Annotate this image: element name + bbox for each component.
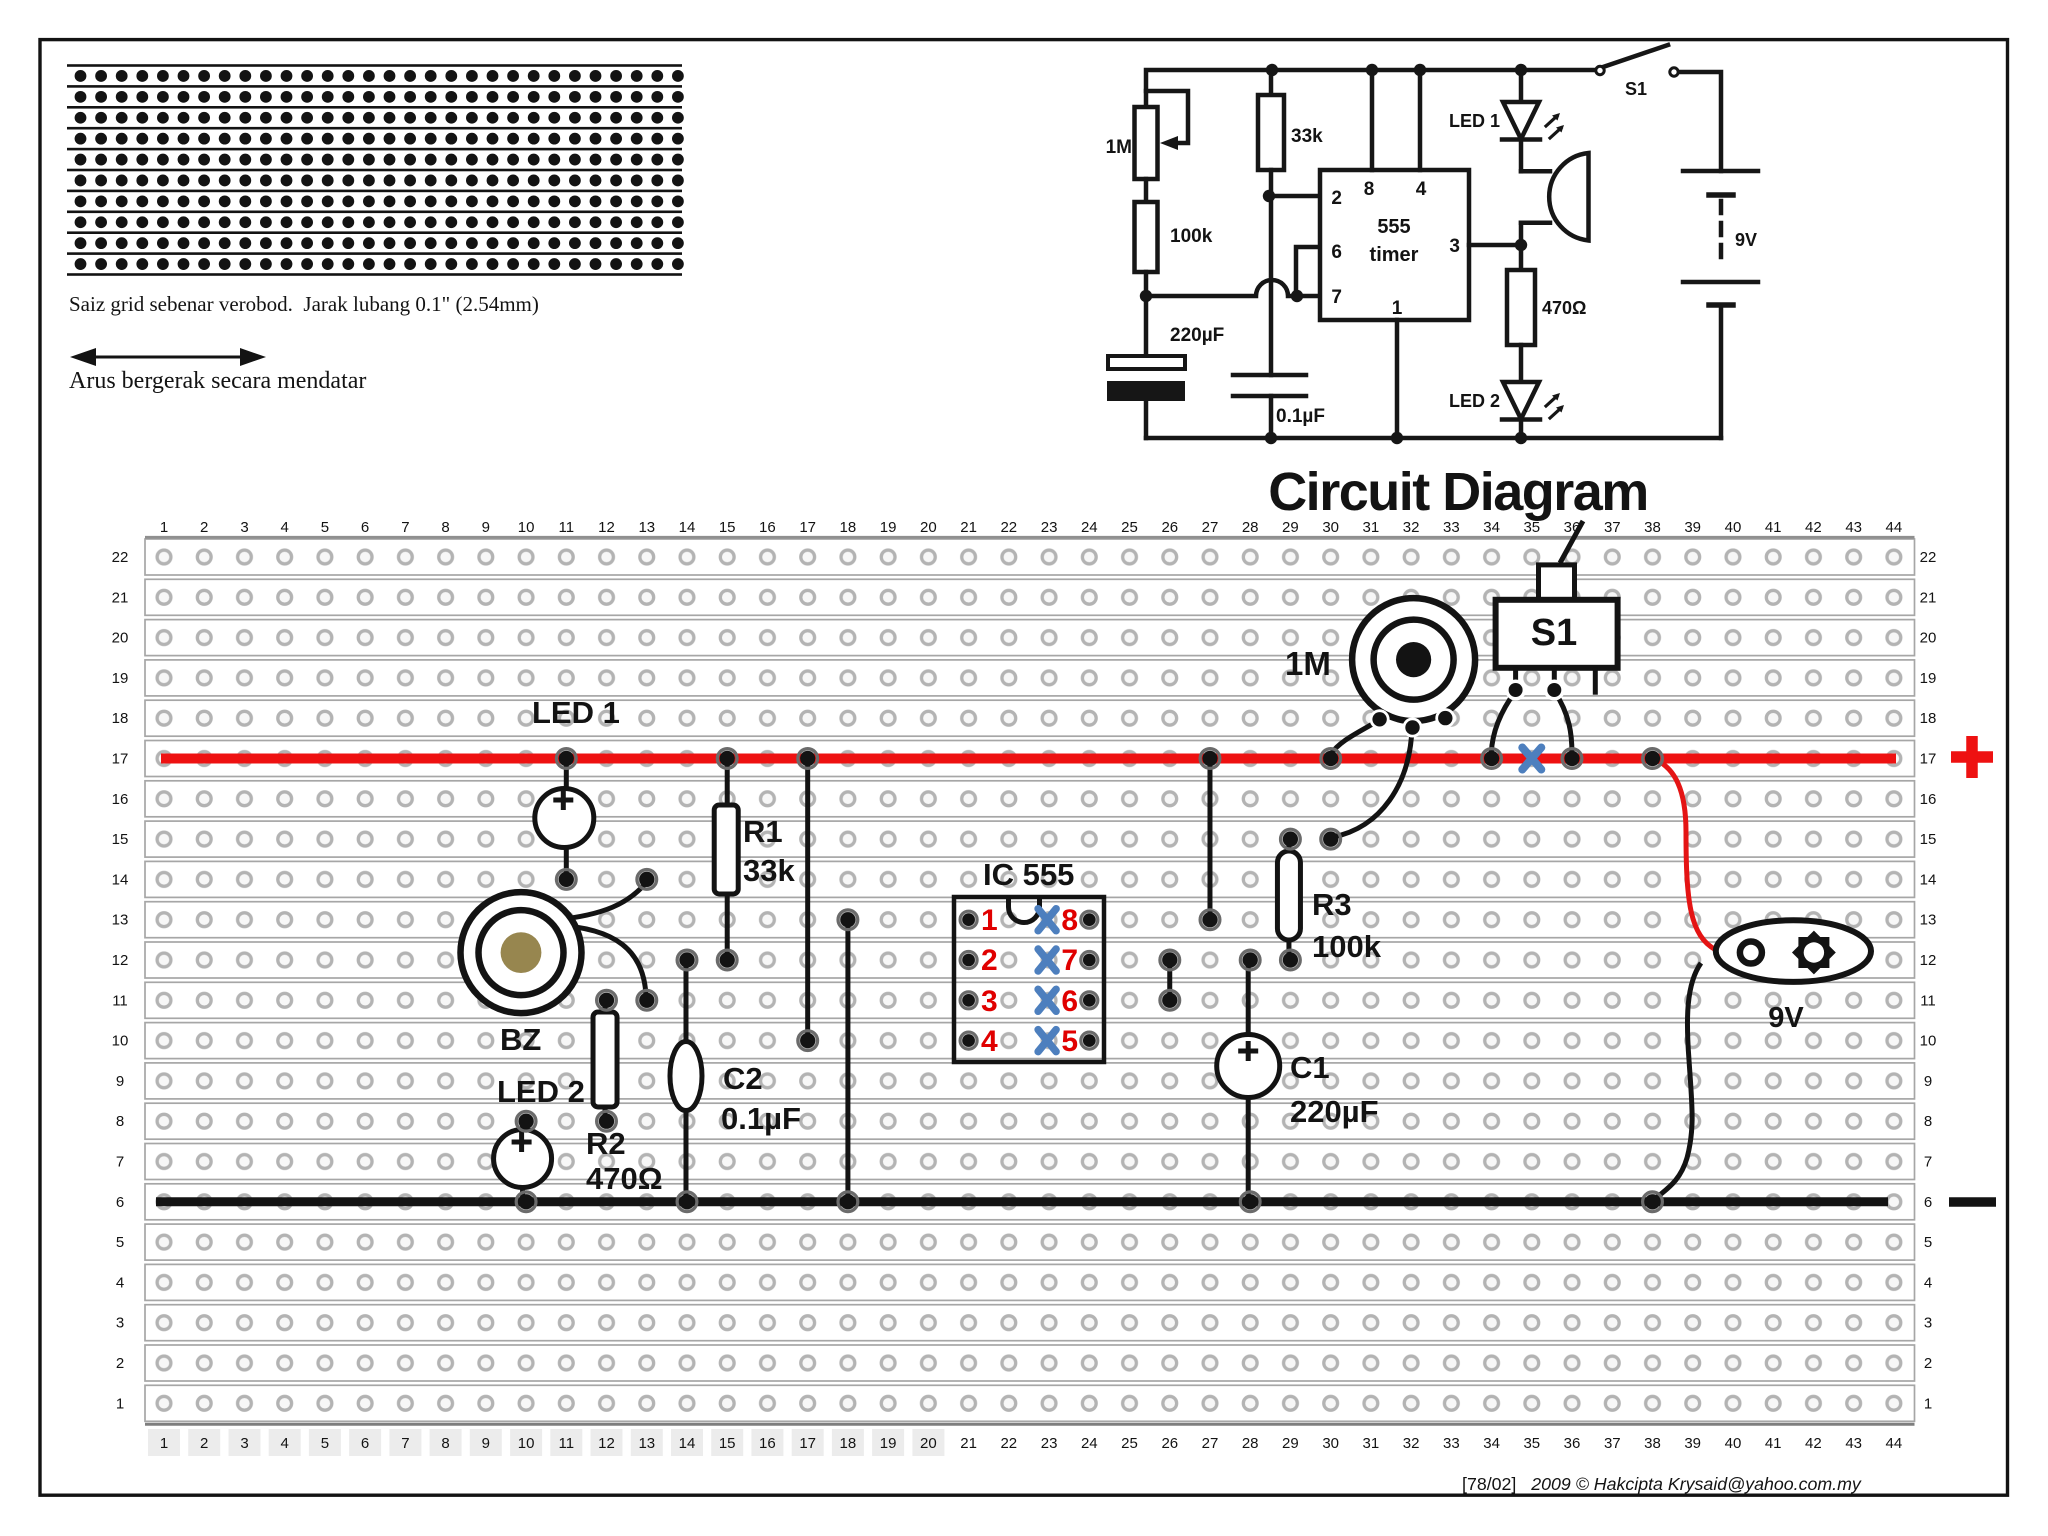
svg-text:1: 1 [1392, 298, 1403, 319]
svg-text:17: 17 [1920, 751, 1937, 768]
svg-text:1M: 1M [1106, 137, 1132, 158]
svg-text:C2: C2 [723, 1061, 763, 1096]
svg-text:18: 18 [840, 1435, 857, 1452]
svg-text:12: 12 [598, 519, 615, 536]
svg-text:8: 8 [1924, 1113, 1932, 1130]
svg-text:34: 34 [1483, 1435, 1500, 1452]
svg-text:3: 3 [1924, 1315, 1932, 1332]
svg-text:28: 28 [1242, 519, 1259, 536]
svg-text:4: 4 [981, 1025, 998, 1058]
svg-text:R2: R2 [586, 1126, 626, 1161]
svg-text:9V: 9V [1735, 230, 1757, 250]
svg-text:1M: 1M [1285, 645, 1331, 682]
svg-text:220µF: 220µF [1290, 1094, 1379, 1129]
svg-text:44: 44 [1886, 1435, 1903, 1452]
svg-text:18: 18 [1920, 710, 1937, 727]
svg-text:10: 10 [1920, 1033, 1937, 1050]
svg-text:22: 22 [1000, 519, 1017, 536]
svg-text:7: 7 [401, 519, 409, 536]
svg-text:21: 21 [960, 519, 977, 536]
svg-text:12: 12 [112, 952, 129, 969]
svg-text:38: 38 [1644, 1435, 1661, 1452]
svg-text:LED 2: LED 2 [497, 1074, 585, 1109]
svg-text:24: 24 [1081, 1435, 1098, 1452]
svg-text:33k: 33k [1291, 126, 1323, 147]
svg-text:S1: S1 [1531, 612, 1577, 654]
svg-text:6: 6 [361, 1435, 369, 1452]
svg-text:21: 21 [1920, 589, 1937, 606]
svg-text:11: 11 [559, 1435, 575, 1452]
svg-text:27: 27 [1202, 519, 1219, 536]
svg-text:7: 7 [401, 1435, 409, 1452]
svg-text:100k: 100k [1312, 929, 1382, 964]
svg-text:15: 15 [719, 1435, 736, 1452]
svg-text:30: 30 [1322, 1435, 1339, 1452]
svg-text:4: 4 [281, 519, 289, 536]
svg-text:5: 5 [321, 519, 329, 536]
svg-text:15: 15 [719, 519, 736, 536]
svg-text:43: 43 [1845, 1435, 1862, 1452]
svg-text:7: 7 [1331, 287, 1342, 308]
svg-text:16: 16 [759, 519, 776, 536]
svg-text:41: 41 [1765, 519, 1782, 536]
svg-text:22: 22 [112, 549, 129, 566]
svg-text:37: 37 [1604, 519, 1621, 536]
svg-text:30: 30 [1322, 519, 1339, 536]
svg-text:0.1µF: 0.1µF [1276, 406, 1325, 427]
svg-text:27: 27 [1202, 1435, 1219, 1452]
svg-text:44: 44 [1886, 519, 1903, 536]
svg-text:555: 555 [1377, 216, 1410, 238]
svg-text:470Ω: 470Ω [1542, 298, 1586, 318]
svg-text:LED 1: LED 1 [1449, 111, 1500, 131]
svg-text:S1: S1 [1625, 79, 1647, 99]
svg-text:0.1µF: 0.1µF [721, 1101, 801, 1136]
svg-text:20: 20 [920, 519, 937, 536]
svg-text:6: 6 [361, 519, 369, 536]
svg-text:4: 4 [116, 1274, 124, 1291]
svg-text:21: 21 [112, 589, 129, 606]
svg-text:14: 14 [679, 519, 696, 536]
svg-text:16: 16 [112, 791, 129, 808]
svg-text:10: 10 [518, 1435, 535, 1452]
svg-text:7: 7 [1061, 944, 1078, 977]
svg-text:13: 13 [638, 1435, 655, 1452]
svg-text:LED 2: LED 2 [1449, 391, 1500, 411]
svg-text:10: 10 [518, 519, 535, 536]
svg-text:3: 3 [116, 1315, 124, 1332]
svg-text:32: 32 [1403, 1435, 1420, 1452]
svg-text:3: 3 [1449, 236, 1460, 257]
svg-text:6: 6 [1331, 242, 1342, 263]
svg-text:timer: timer [1370, 244, 1419, 266]
svg-text:14: 14 [1920, 871, 1937, 888]
svg-text:9V: 9V [1768, 1002, 1804, 1034]
svg-text:17: 17 [799, 1435, 816, 1452]
svg-text:17: 17 [112, 751, 129, 768]
svg-text:19: 19 [880, 519, 897, 536]
svg-text:37: 37 [1604, 1435, 1621, 1452]
svg-text:25: 25 [1121, 1435, 1138, 1452]
svg-text:7: 7 [1924, 1154, 1932, 1171]
svg-text:35: 35 [1523, 1435, 1540, 1452]
svg-text:13: 13 [1920, 912, 1937, 929]
svg-text:1: 1 [160, 1435, 168, 1452]
svg-text:LED 1: LED 1 [532, 695, 620, 730]
svg-text:5: 5 [1924, 1234, 1932, 1251]
svg-text:4: 4 [1416, 179, 1427, 200]
svg-text:9: 9 [116, 1073, 124, 1090]
svg-text:5: 5 [116, 1234, 124, 1251]
svg-text:19: 19 [112, 670, 129, 687]
svg-text:2: 2 [1924, 1355, 1932, 1372]
svg-text:26: 26 [1161, 519, 1178, 536]
svg-text:R1: R1 [743, 814, 783, 849]
svg-text:R3: R3 [1312, 887, 1352, 922]
svg-text:18: 18 [112, 710, 129, 727]
svg-text:32: 32 [1403, 519, 1420, 536]
svg-text:15: 15 [112, 831, 129, 848]
svg-text:2: 2 [1331, 188, 1342, 209]
svg-text:14: 14 [679, 1435, 696, 1452]
svg-text:16: 16 [1920, 791, 1937, 808]
svg-text:20: 20 [1920, 630, 1937, 647]
svg-text:8: 8 [441, 519, 449, 536]
svg-text:10: 10 [112, 1033, 129, 1050]
svg-text:9: 9 [482, 1435, 490, 1452]
svg-text:41: 41 [1765, 1435, 1782, 1452]
svg-text:5: 5 [1061, 1025, 1078, 1058]
svg-text:36: 36 [1564, 1435, 1581, 1452]
svg-text:9: 9 [1924, 1073, 1932, 1090]
svg-text:6: 6 [116, 1194, 124, 1211]
svg-text:39: 39 [1684, 519, 1701, 536]
svg-text:19: 19 [1920, 670, 1937, 687]
svg-text:31: 31 [1363, 1435, 1380, 1452]
svg-text:35: 35 [1523, 519, 1540, 536]
svg-text:33: 33 [1443, 1435, 1460, 1452]
svg-text:17: 17 [799, 519, 816, 536]
svg-text:19: 19 [880, 1435, 897, 1452]
svg-text:12: 12 [598, 1435, 615, 1452]
svg-text:3: 3 [240, 519, 248, 536]
svg-text:Saiz grid sebenar verobod. Ja: Saiz grid sebenar verobod. Jarak lubang … [69, 292, 539, 316]
svg-text:21: 21 [960, 1435, 977, 1452]
svg-text:22: 22 [1000, 1435, 1017, 1452]
svg-text:2: 2 [200, 519, 208, 536]
svg-text:1: 1 [1924, 1395, 1932, 1412]
svg-text:39: 39 [1684, 1435, 1701, 1452]
svg-text:26: 26 [1161, 1435, 1178, 1452]
svg-text:43: 43 [1845, 519, 1862, 536]
svg-text:23: 23 [1041, 1435, 1058, 1452]
svg-text:23: 23 [1041, 519, 1058, 536]
svg-text:5: 5 [321, 1435, 329, 1452]
svg-text:13: 13 [638, 519, 655, 536]
svg-text:18: 18 [840, 519, 857, 536]
svg-text:2: 2 [200, 1435, 208, 1452]
svg-text:3: 3 [240, 1435, 248, 1452]
svg-text:11: 11 [1920, 992, 1936, 1009]
svg-text:20: 20 [112, 630, 129, 647]
svg-text:15: 15 [1920, 831, 1937, 848]
svg-text:[78/02] 2009 © Hakcipta Krys: [78/02] 2009 © Hakcipta Krysaid@yahoo.co… [1462, 1474, 1862, 1494]
svg-text:BZ: BZ [500, 1022, 541, 1057]
svg-text:42: 42 [1805, 519, 1822, 536]
svg-text:14: 14 [112, 871, 129, 888]
svg-text:33k: 33k [743, 853, 795, 888]
svg-text:8: 8 [441, 1435, 449, 1452]
svg-text:20: 20 [920, 1435, 937, 1452]
svg-text:16: 16 [759, 1435, 776, 1452]
svg-text:220µF: 220µF [1170, 325, 1224, 346]
svg-text:C1: C1 [1290, 1050, 1330, 1085]
svg-text:11: 11 [112, 992, 128, 1009]
svg-text:40: 40 [1725, 519, 1742, 536]
svg-text:8: 8 [1364, 179, 1375, 200]
svg-text:8: 8 [1061, 904, 1078, 937]
svg-text:31: 31 [1363, 519, 1380, 536]
svg-text:40: 40 [1725, 1435, 1742, 1452]
svg-text:13: 13 [112, 912, 129, 929]
svg-text:38: 38 [1644, 519, 1661, 536]
svg-text:470Ω: 470Ω [586, 1161, 663, 1196]
svg-text:33: 33 [1443, 519, 1460, 536]
svg-text:7: 7 [116, 1154, 124, 1171]
svg-text:6: 6 [1061, 985, 1078, 1018]
svg-text:100k: 100k [1170, 226, 1213, 247]
svg-text:12: 12 [1920, 952, 1937, 969]
svg-text:1: 1 [981, 904, 998, 937]
svg-text:2: 2 [981, 944, 998, 977]
svg-text:28: 28 [1242, 1435, 1259, 1452]
svg-text:Circuit Diagram: Circuit Diagram [1268, 462, 1648, 522]
svg-text:3: 3 [981, 985, 998, 1018]
svg-text:IC 555: IC 555 [983, 857, 1074, 892]
svg-text:4: 4 [1924, 1274, 1932, 1291]
svg-text:29: 29 [1282, 519, 1299, 536]
svg-text:42: 42 [1805, 1435, 1822, 1452]
svg-text:25: 25 [1121, 519, 1138, 536]
svg-text:Arus bergerak secara mendatar: Arus bergerak secara mendatar [69, 368, 366, 394]
svg-text:2: 2 [116, 1355, 124, 1372]
svg-text:9: 9 [482, 519, 490, 536]
svg-text:34: 34 [1483, 519, 1500, 536]
svg-text:6: 6 [1924, 1194, 1932, 1211]
svg-text:1: 1 [116, 1395, 124, 1412]
svg-text:11: 11 [559, 519, 575, 536]
svg-text:1: 1 [160, 519, 168, 536]
svg-text:22: 22 [1920, 549, 1937, 566]
svg-text:4: 4 [281, 1435, 289, 1452]
svg-text:24: 24 [1081, 519, 1098, 536]
svg-text:29: 29 [1282, 1435, 1299, 1452]
svg-text:8: 8 [116, 1113, 124, 1130]
